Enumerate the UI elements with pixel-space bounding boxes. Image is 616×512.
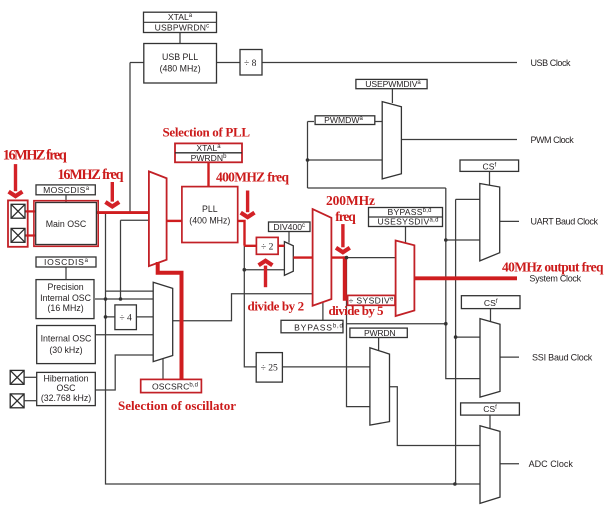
svg-text:PWM Clock: PWM Clock bbox=[531, 135, 575, 145]
red thick System Clock line bbox=[414, 276, 517, 280]
block Main OSC bbox=[36, 203, 97, 245]
svg-text:(400 MHz): (400 MHz) bbox=[189, 215, 230, 225]
wire ADC mux out bbox=[500, 463, 519, 465]
svg-text:Internal OSC: Internal OSC bbox=[40, 293, 91, 303]
wire hibernation out bbox=[95, 355, 153, 390]
register CS UART bbox=[460, 160, 519, 171]
red wire node to SYSDIV box bbox=[343, 256, 347, 300]
wire PWRDN mux out to ADC bbox=[390, 387, 481, 446]
svg-text:÷ 8: ÷ 8 bbox=[244, 58, 257, 69]
wire PIOSC output bbox=[95, 298, 153, 300]
mux M5 sysdiv bypass (red highlighted) bbox=[396, 241, 415, 317]
mux M2 oscillator source bbox=[153, 282, 173, 361]
red wire center mux out bbox=[331, 256, 347, 258]
stub hib pin1 bbox=[24, 376, 37, 378]
svg-text:16MHZ freq: 16MHZ freq bbox=[58, 167, 124, 183]
wire B to SSI upper bbox=[456, 336, 480, 338]
svg-text:USB Clock: USB Clock bbox=[531, 58, 572, 68]
svg-text:freq: freq bbox=[335, 209, 356, 224]
xtal pin box 2 bbox=[11, 228, 25, 242]
wire UART mux out bbox=[500, 220, 519, 222]
junction dot 5 bbox=[453, 482, 457, 486]
wire CS-SSI select bbox=[490, 309, 492, 322]
wire PWM feed vertical bbox=[307, 122, 309, 189]
svg-text:MOSCDISa: MOSCDISa bbox=[43, 185, 90, 195]
red wire Main OSC to PLL mux bbox=[96, 211, 148, 214]
register BYPASS/USESYSDIV bbox=[369, 208, 443, 227]
svg-text:USB PLL: USB PLL bbox=[162, 52, 198, 62]
divider div8 bbox=[240, 50, 262, 76]
wire CS-UART select bbox=[489, 171, 491, 185]
junction dot 10 bbox=[345, 256, 349, 260]
wire SSI mux out bbox=[500, 356, 519, 358]
register CS SSI bbox=[461, 296, 520, 309]
junction dot 4 bbox=[454, 335, 458, 339]
wire DIV400 select bbox=[288, 232, 290, 243]
svg-text:Hibernation: Hibernation bbox=[44, 374, 89, 384]
svg-text:USBPWRDNc: USBPWRDNc bbox=[155, 23, 210, 33]
wire center mux out black bbox=[347, 257, 396, 259]
mux M3 DIV400 small bbox=[284, 242, 293, 276]
wire MOSC to osc mux bbox=[106, 290, 154, 292]
block USB PLL bbox=[144, 44, 217, 84]
wire PWMDW out bbox=[374, 121, 382, 123]
divider div4 bbox=[115, 305, 136, 330]
red arrow 16MHZ #2 bbox=[105, 182, 119, 207]
svg-text:200MHz: 200MHz bbox=[326, 193, 375, 208]
wire PLL path vert to div25 bbox=[244, 246, 256, 367]
block PLL (red) bbox=[182, 187, 238, 243]
wire 30kHz out bbox=[95, 334, 153, 336]
svg-text:PLL: PLL bbox=[202, 204, 218, 214]
svg-text:Main OSC: Main OSC bbox=[46, 219, 87, 229]
svg-text:(16 MHz): (16 MHz) bbox=[48, 303, 84, 313]
svg-text:OSC: OSC bbox=[56, 383, 76, 393]
svg-text:400MHZ freq: 400MHZ freq bbox=[216, 170, 289, 185]
block Precision Internal OSC bbox=[36, 280, 94, 319]
svg-text:Precision: Precision bbox=[48, 282, 84, 292]
wire div400 bypass branch bbox=[244, 269, 284, 271]
wire div8 to USB Clock bbox=[262, 62, 517, 64]
wire MOSC vertical + PIOSC bottom bus bbox=[106, 214, 481, 485]
red annotation rect around Main OSC bbox=[34, 201, 98, 247]
svg-text:(30 kHz): (30 kHz) bbox=[49, 345, 82, 355]
wire div25 out bbox=[282, 366, 370, 368]
block Internal OSC bbox=[37, 326, 96, 364]
xtal pin box 1 bbox=[11, 204, 25, 218]
wire IOSCDIS select bbox=[65, 267, 67, 281]
junction dot 2 bbox=[444, 238, 448, 242]
junction dot 9 bbox=[119, 297, 123, 301]
mux M9 ADC PWRDN select bbox=[370, 348, 390, 425]
svg-text:(480 MHz): (480 MHz) bbox=[160, 64, 201, 74]
svg-text:IOSCDISa: IOSCDISa bbox=[44, 257, 89, 267]
svg-text:Selection of oscillator: Selection of oscillator bbox=[118, 398, 236, 413]
svg-text:PWRDN: PWRDN bbox=[364, 328, 396, 338]
red wire PLL mux to PLL bbox=[167, 220, 182, 222]
wire A-bus top bbox=[308, 187, 446, 189]
svg-text:÷ 2: ÷ 2 bbox=[261, 241, 274, 252]
red stub SYSDIV to system mux bbox=[395, 299, 397, 301]
red arrow 200MHz bbox=[336, 224, 350, 252]
hibernation pin box 1 bbox=[10, 370, 24, 384]
wire MOSCDIS select bbox=[65, 195, 67, 203]
svg-text:PWMDWa: PWMDWa bbox=[324, 115, 363, 125]
junction dot 7 bbox=[104, 297, 108, 301]
register USEPWMDIV bbox=[356, 79, 427, 88]
svg-text:÷ 4: ÷ 4 bbox=[119, 312, 132, 323]
mux M1 PLL source (red highlighted) bbox=[149, 171, 167, 266]
mux M8 SSI baud select bbox=[480, 319, 500, 398]
wire bus B bbox=[455, 199, 457, 484]
wire node branch to bus A bbox=[347, 323, 446, 325]
svg-text:40MHz output freq: 40MHz output freq bbox=[502, 260, 604, 275]
svg-text:(32.768 kHz): (32.768 kHz) bbox=[41, 393, 91, 403]
wire XTAL-USBPWRDN select bbox=[179, 33, 181, 44]
svg-text:divide by 5: divide by 5 bbox=[329, 303, 385, 318]
wire PWRDN select bbox=[378, 338, 380, 351]
svg-text:USEPWMDIVa: USEPWMDIVa bbox=[365, 79, 421, 89]
red arrow 16MHZ #1 bbox=[9, 164, 23, 196]
red arrow 400MHZ bbox=[241, 191, 255, 218]
mux M10 ADC clock select bbox=[480, 426, 500, 504]
wire PIOSC to PLL mux bbox=[121, 220, 149, 299]
register IOSCDIS bbox=[36, 257, 96, 267]
red stub xtal pin2 to Main OSC bbox=[25, 234, 36, 236]
register box XTAL/USBPWRDN bbox=[144, 12, 217, 32]
wire PWM mux out bbox=[401, 139, 517, 141]
register CS ADC bbox=[461, 403, 520, 415]
wire MOSC to USB PLL bbox=[130, 63, 144, 213]
junction dot 3 bbox=[444, 322, 448, 326]
wire node down to PWRDN mux bbox=[347, 258, 370, 407]
wire bus A bbox=[446, 188, 480, 379]
wire PWMDW in stub bbox=[308, 121, 315, 123]
stub hib pin2 bbox=[24, 400, 37, 402]
red wire small mux to center mux bbox=[293, 256, 312, 258]
svg-text:DIV400c: DIV400c bbox=[273, 222, 305, 232]
red stub xtal pin1 to Main OSC bbox=[25, 210, 36, 212]
wire div4 in-out bbox=[106, 316, 154, 318]
register PWMDW bbox=[315, 116, 375, 125]
mux M4 system source (red highlighted) bbox=[313, 209, 332, 306]
wire PWM mux direct input bbox=[308, 159, 383, 161]
svg-text:CSf: CSf bbox=[484, 298, 498, 308]
svg-text:CSf: CSf bbox=[482, 161, 496, 171]
svg-text:ADC Clock: ADC Clock bbox=[529, 459, 574, 469]
mux M6 PWM divider select bbox=[382, 102, 401, 179]
register MOSCDIS bbox=[36, 185, 95, 195]
svg-text:16MHZ freq: 16MHZ freq bbox=[3, 148, 67, 164]
register SYSDIV (red) bbox=[348, 295, 395, 305]
svg-text:SSI Baud Clock: SSI Baud Clock bbox=[532, 353, 593, 363]
wire UART lower input bbox=[446, 239, 480, 241]
wire BYPASS-USESYSDIV select bbox=[405, 227, 407, 244]
red arrow divide-by-2 (up) bbox=[259, 261, 273, 288]
wire center mux select bbox=[322, 302, 324, 320]
red wire XTAL-PWRDN select bbox=[207, 163, 209, 187]
svg-text:Internal OSC: Internal OSC bbox=[41, 333, 92, 343]
svg-text:CSf: CSf bbox=[483, 404, 497, 414]
wire osc mux select bbox=[162, 358, 164, 379]
register BYPASS center bbox=[281, 320, 343, 333]
register PWRDN bbox=[350, 328, 407, 337]
svg-text:divide by 2: divide by 2 bbox=[248, 299, 305, 314]
register DIV400 bbox=[269, 222, 311, 232]
wire USEPWMDIV select bbox=[391, 89, 393, 103]
register XTAL/PWRDN (red) bbox=[175, 143, 242, 162]
divider div2 (red) bbox=[256, 237, 278, 254]
red wire PLL out to div2 bbox=[238, 220, 257, 246]
wire osc mux out to center mux bbox=[173, 294, 313, 321]
junction dot 6 bbox=[243, 268, 247, 272]
svg-text:System Clock: System Clock bbox=[529, 274, 581, 284]
wire B to UART upper bbox=[456, 198, 480, 200]
svg-text:÷ 25: ÷ 25 bbox=[261, 362, 278, 373]
red select path OSCSRC bbox=[158, 262, 182, 379]
junction dot 8 bbox=[104, 315, 108, 319]
block Hibernation OSC bbox=[37, 372, 96, 405]
junction dot 1 bbox=[306, 158, 310, 162]
wire USB PLL to div8 bbox=[217, 62, 241, 64]
svg-text:UART Baud Clock: UART Baud Clock bbox=[531, 217, 599, 227]
red annotation rect around xtal pins bbox=[8, 200, 28, 246]
wire CS-ADC select bbox=[489, 415, 491, 429]
register OSCSRC (red) bbox=[141, 379, 202, 392]
mux M7 UART baud select bbox=[480, 184, 500, 261]
svg-text:Selection of PLL: Selection of PLL bbox=[163, 125, 251, 140]
svg-text:PWRDNb: PWRDNb bbox=[191, 153, 227, 163]
hibernation pin box 2 bbox=[10, 394, 24, 408]
divider div25 bbox=[256, 353, 282, 383]
red wire div2 to small mux bbox=[278, 245, 284, 247]
